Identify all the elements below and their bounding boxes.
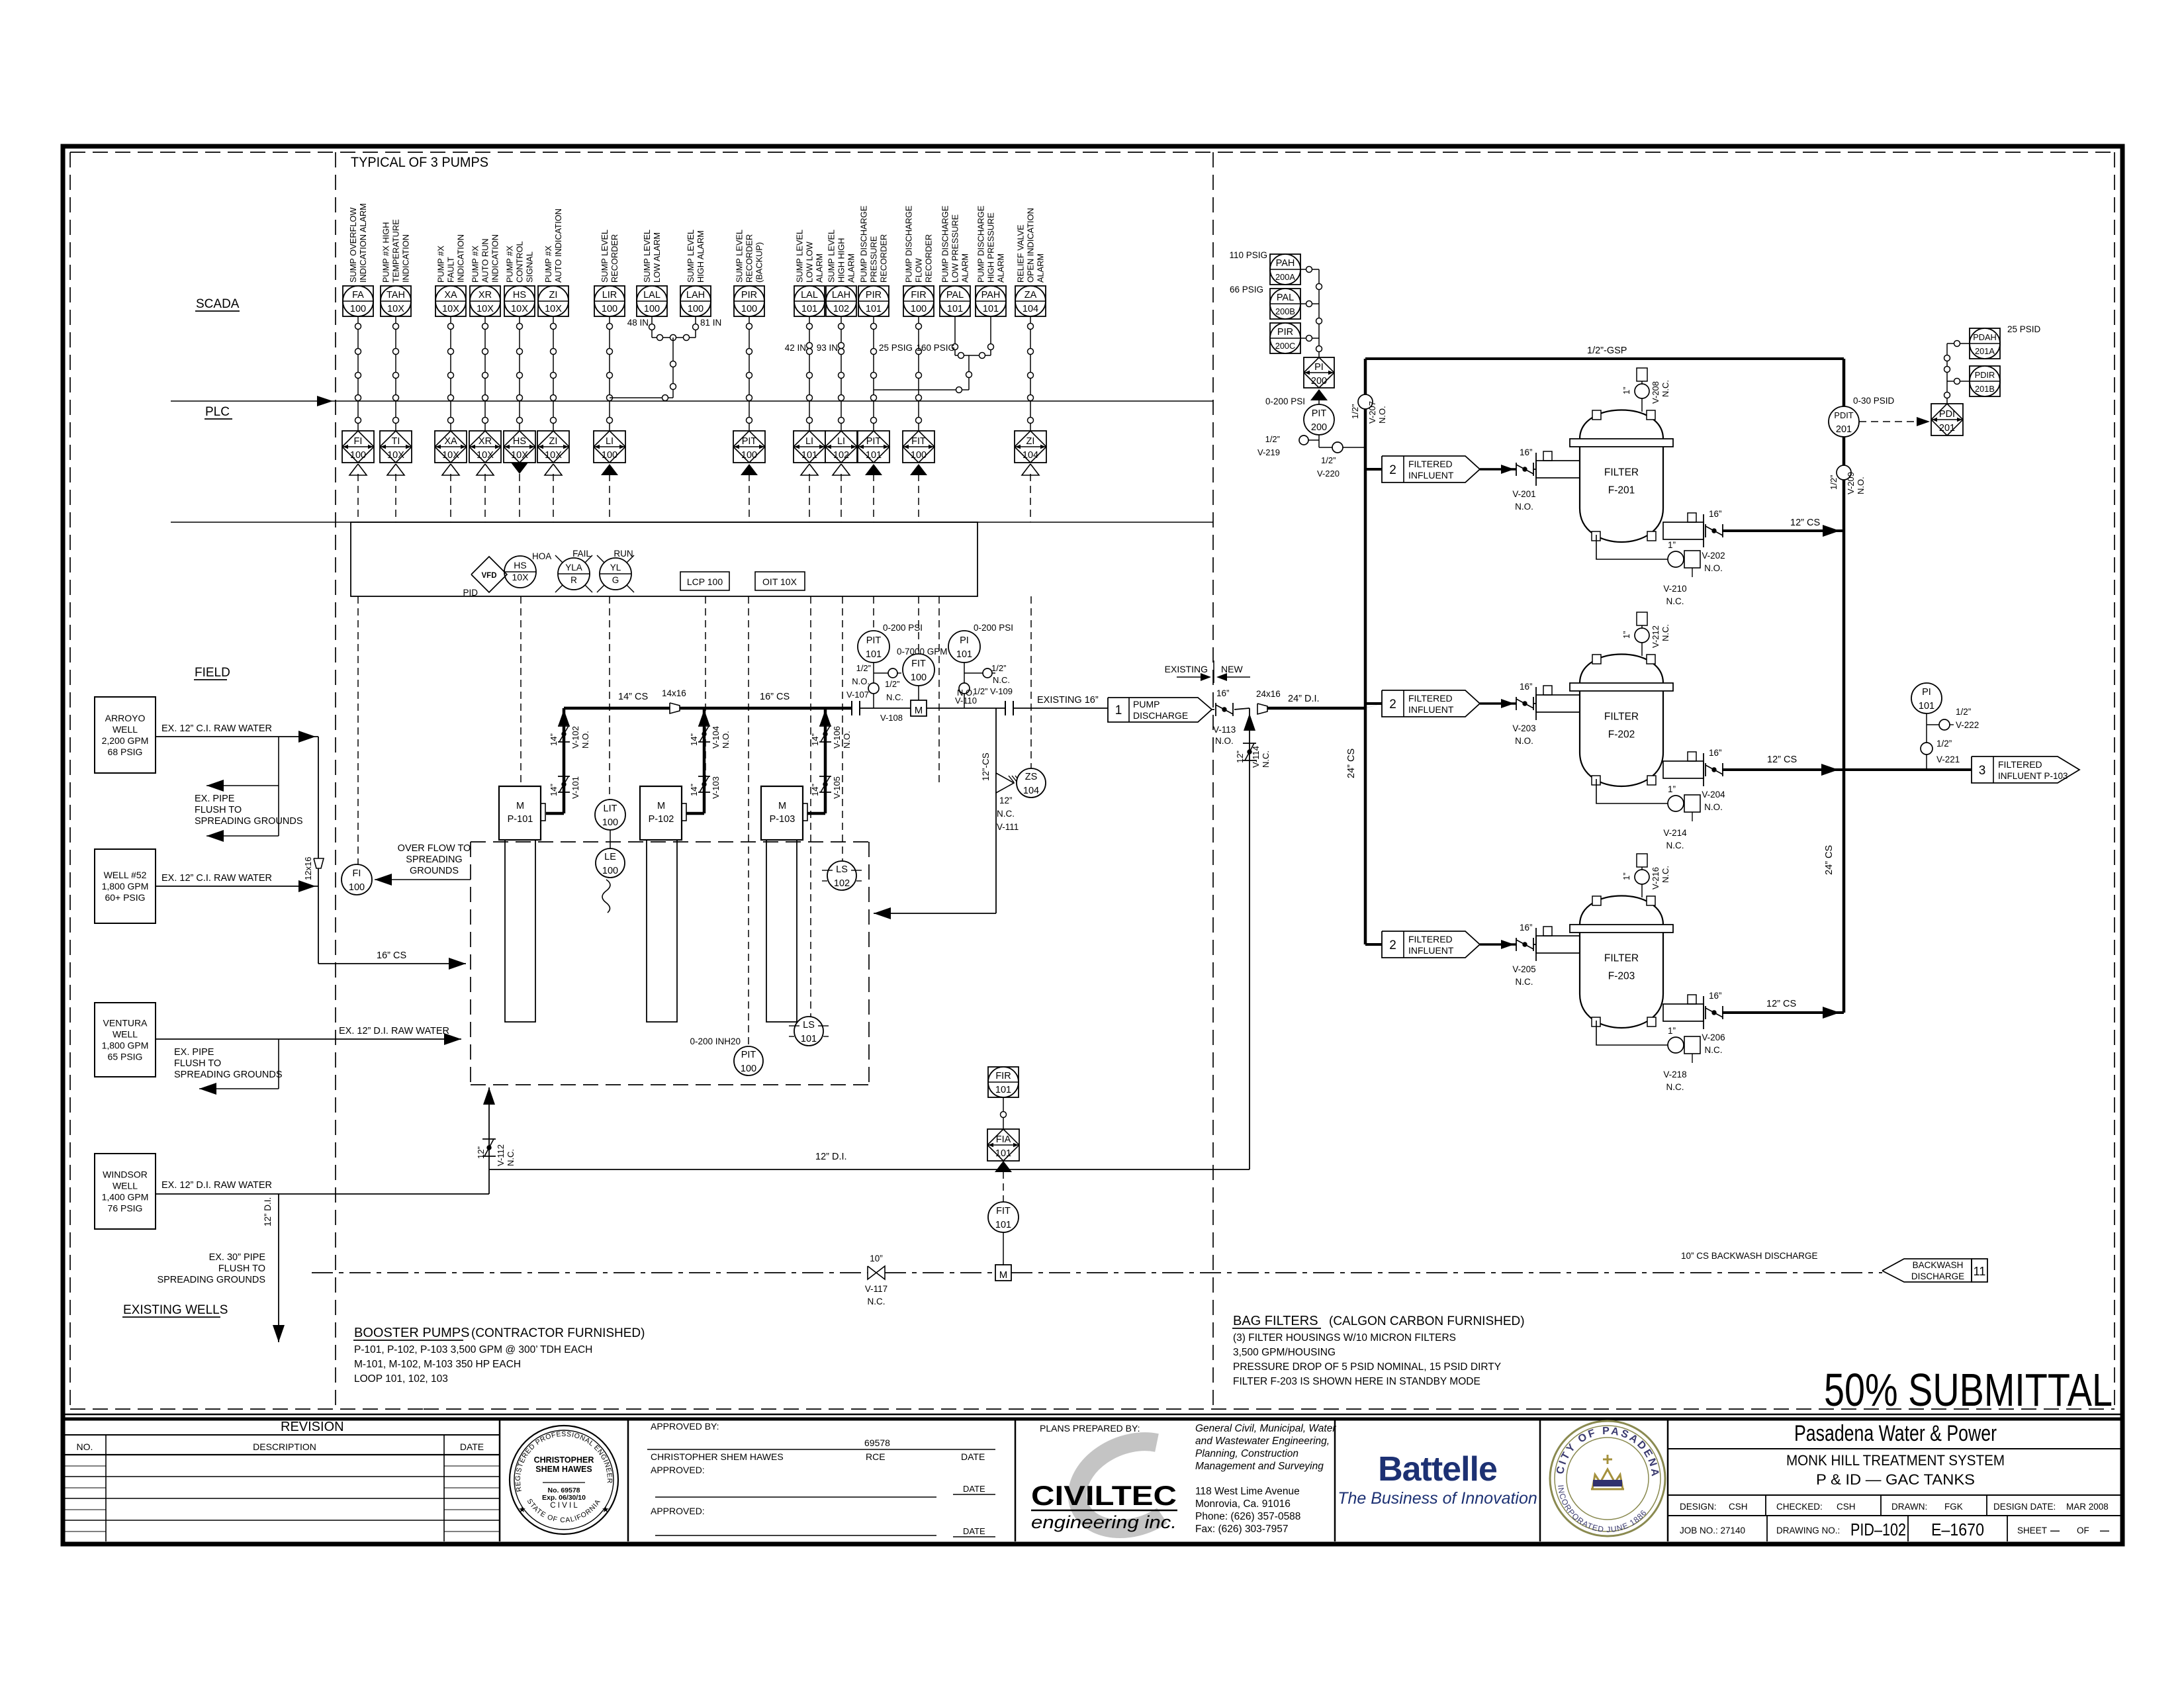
- svg-text:FIA: FIA: [996, 1134, 1011, 1145]
- svg-text:PUMP #X: PUMP #X: [505, 246, 515, 283]
- svg-text:LAH: LAH: [686, 290, 705, 300]
- svg-text:APPROVED BY:: APPROVED BY:: [651, 1421, 719, 1432]
- svg-text:110 PSIG: 110 PSIG: [1229, 250, 1267, 260]
- svg-text:OIT 10X: OIT 10X: [762, 576, 797, 587]
- svg-text:INFLUENT P-103: INFLUENT P-103: [1998, 771, 2068, 781]
- svg-text:101: 101: [866, 304, 882, 314]
- svg-text:25 PSID: 25 PSID: [2007, 324, 2041, 334]
- svg-text:0-200 PSI: 0-200 PSI: [883, 623, 923, 633]
- svg-text:V-105: V-105: [832, 776, 842, 799]
- svg-text:14”: 14”: [810, 733, 820, 746]
- svg-text:10X: 10X: [442, 450, 459, 461]
- svg-text:N.C.: N.C.: [506, 1149, 516, 1166]
- svg-text:M-101, M-102, M-103 350 HP: M-101, M-102, M-103 350 HP EACH: [354, 1359, 521, 1370]
- svg-text:★: ★: [518, 1504, 526, 1514]
- svg-text:PUMP #X: PUMP #X: [436, 246, 446, 283]
- svg-text:V-104: V-104: [711, 726, 721, 749]
- svg-text:WINDSOR: WINDSOR: [103, 1169, 148, 1180]
- svg-text:HS: HS: [513, 290, 526, 300]
- svg-text:CHRISTOPHER SHEM HAWES: CHRISTOPHER SHEM HAWES: [651, 1451, 784, 1462]
- svg-text:N.C.: N.C.: [1666, 841, 1684, 850]
- svg-text:100: 100: [741, 450, 757, 461]
- svg-text:2,200 GPM: 2,200 GPM: [102, 735, 149, 746]
- svg-text:N.C.: N.C.: [1661, 380, 1670, 397]
- svg-text:V-214: V-214: [1663, 828, 1687, 838]
- svg-text:CONTROL: CONTROL: [515, 241, 525, 283]
- svg-text:14x16: 14x16: [662, 688, 686, 698]
- svg-text:and Wastewater Engineering,: and Wastewater Engineering,: [1195, 1436, 1330, 1447]
- svg-text:201A: 201A: [1975, 346, 1995, 356]
- svg-text:N.O.: N.O.: [1856, 477, 1866, 494]
- svg-text:M: M: [657, 801, 665, 811]
- svg-text:100: 100: [688, 304, 704, 314]
- svg-text:HIGH PRESSURE: HIGH PRESSURE: [986, 212, 996, 283]
- svg-text:INDICATION: INDICATION: [401, 234, 411, 283]
- svg-text:DATE: DATE: [963, 1484, 985, 1494]
- svg-text:100: 100: [644, 304, 660, 314]
- svg-text:SPREADING GROUNDS: SPREADING GROUNDS: [195, 816, 303, 827]
- svg-text:V-208: V-208: [1651, 381, 1661, 404]
- svg-text:1: 1: [1115, 704, 1122, 717]
- svg-text:12x16: 12x16: [303, 857, 313, 880]
- svg-text:TEMPERATURE: TEMPERATURE: [391, 219, 401, 283]
- svg-text:102: 102: [834, 878, 850, 889]
- svg-text:OVER FLOW TO: OVER FLOW TO: [398, 843, 471, 854]
- svg-text:HS: HS: [514, 560, 526, 571]
- svg-text:P-102: P-102: [649, 814, 674, 825]
- svg-text:N.C.: N.C.: [1666, 596, 1684, 606]
- svg-text:FILTERED: FILTERED: [1408, 693, 1453, 704]
- svg-text:V-114: V-114: [1251, 746, 1261, 768]
- svg-text:TAH: TAH: [387, 290, 405, 300]
- svg-text:SIGNAL: SIGNAL: [525, 251, 535, 283]
- svg-text:M: M: [778, 801, 786, 811]
- svg-text:FAULT: FAULT: [446, 257, 456, 283]
- svg-text:2: 2: [1389, 698, 1396, 711]
- svg-text:101: 101: [995, 1220, 1011, 1230]
- svg-text:RECORDER: RECORDER: [745, 234, 754, 283]
- svg-text:—: —: [2100, 1525, 2109, 1535]
- svg-text:FILTER: FILTER: [1604, 711, 1639, 723]
- svg-text:V-219: V-219: [1257, 447, 1280, 457]
- svg-text:N.O.: N.O.: [1704, 563, 1723, 573]
- svg-text:EX. 12” C.I. RAW WATER: EX. 12” C.I. RAW WATER: [161, 873, 272, 884]
- svg-text:SUMP LEVEL: SUMP LEVEL: [686, 230, 696, 283]
- svg-text:12” CS: 12” CS: [1790, 518, 1820, 528]
- svg-text:N.O.: N.O.: [721, 731, 731, 749]
- svg-text:N.O.: N.O.: [1377, 406, 1387, 424]
- svg-text:1”: 1”: [1621, 631, 1631, 639]
- svg-text:1/2”: 1/2”: [1265, 434, 1280, 444]
- svg-text:3,500 GPM/HOUSING: 3,500 GPM/HOUSING: [1233, 1347, 1336, 1358]
- svg-text:★: ★: [602, 1504, 610, 1514]
- svg-text:CSH: CSH: [1729, 1502, 1748, 1512]
- svg-text:1/2”: 1/2”: [1350, 404, 1360, 419]
- svg-text:160 PSIG: 160 PSIG: [916, 343, 955, 353]
- svg-text:NEW: NEW: [1221, 664, 1243, 674]
- svg-text:V-220: V-220: [1317, 469, 1340, 479]
- svg-text:F-203: F-203: [1608, 971, 1635, 982]
- svg-text:0-200 INH20: 0-200 INH20: [690, 1036, 741, 1046]
- svg-text:P & ID — GAC TANKS: P & ID — GAC TANKS: [1816, 1471, 1975, 1488]
- svg-text:AUTO INDICATION: AUTO INDICATION: [553, 208, 563, 283]
- svg-text:10X: 10X: [545, 304, 562, 314]
- svg-text:FILTER: FILTER: [1604, 953, 1639, 964]
- svg-text:10X: 10X: [387, 450, 404, 461]
- svg-text:V-212: V-212: [1651, 625, 1661, 648]
- svg-text:16”: 16”: [1520, 682, 1533, 692]
- svg-text:C I V I L: C I V I L: [550, 1502, 578, 1510]
- svg-text:Monrovia, Ca. 91016: Monrovia, Ca. 91016: [1195, 1498, 1291, 1510]
- svg-text:PID–102: PID–102: [1850, 1520, 1906, 1539]
- svg-text:MAR 2008: MAR 2008: [2066, 1502, 2109, 1512]
- svg-text:PDAH: PDAH: [1973, 332, 1997, 342]
- svg-text:FLUSH TO: FLUSH TO: [195, 805, 242, 815]
- svg-text:FIELD: FIELD: [195, 666, 230, 680]
- svg-text:HIGH HIGH: HIGH HIGH: [837, 238, 846, 283]
- svg-text:1/2”: 1/2”: [885, 679, 899, 689]
- svg-text:PIT: PIT: [741, 1050, 756, 1060]
- svg-text:LIT: LIT: [604, 803, 617, 814]
- svg-text:ZS: ZS: [1025, 772, 1038, 782]
- svg-text:PID: PID: [463, 588, 478, 598]
- svg-text:PUMP DISCHARGE: PUMP DISCHARGE: [976, 206, 986, 283]
- svg-text:EX. 12” C.I. RAW WATER: EX. 12” C.I. RAW WATER: [161, 723, 272, 734]
- svg-text:PUMP DISCHARGE: PUMP DISCHARGE: [904, 206, 914, 283]
- svg-text:100: 100: [741, 1064, 756, 1074]
- svg-text:Phone: (626) 357-0588: Phone: (626) 357-0588: [1195, 1511, 1300, 1522]
- svg-text:1”: 1”: [1668, 1026, 1676, 1036]
- svg-text:WELL: WELL: [113, 1029, 138, 1040]
- svg-text:1,400 GPM: 1,400 GPM: [102, 1192, 149, 1203]
- svg-text:200C: 200C: [1275, 341, 1296, 351]
- svg-text:XA: XA: [444, 290, 457, 300]
- svg-text:76 PSIG: 76 PSIG: [108, 1203, 143, 1214]
- svg-text:201: 201: [1836, 424, 1852, 435]
- svg-text:DRAWING NO.:: DRAWING NO.:: [1776, 1526, 1840, 1535]
- svg-text:Management and Surveying: Management and Surveying: [1195, 1461, 1324, 1472]
- svg-text:SUMP OVERFLOW: SUMP OVERFLOW: [348, 207, 358, 283]
- svg-text:V-221: V-221: [1936, 754, 1960, 764]
- svg-text:10X: 10X: [477, 304, 494, 314]
- svg-text:V-201: V-201: [1512, 489, 1535, 499]
- svg-text:16” CS: 16” CS: [760, 692, 790, 702]
- svg-text:FAIL: FAIL: [572, 549, 591, 559]
- svg-text:10X: 10X: [477, 450, 494, 461]
- svg-text:ZI: ZI: [549, 290, 558, 300]
- svg-text:16”: 16”: [1520, 923, 1533, 933]
- svg-text:XR: XR: [478, 290, 492, 300]
- svg-text:68 PSIG: 68 PSIG: [108, 747, 143, 757]
- svg-text:0-200 PSI: 0-200 PSI: [1265, 396, 1305, 406]
- svg-text:1/2”: 1/2”: [1321, 455, 1336, 465]
- svg-text:LE: LE: [604, 852, 616, 862]
- svg-text:TYPICAL OF 3 PUMPS: TYPICAL OF 3 PUMPS: [351, 155, 488, 170]
- svg-text:PIR: PIR: [866, 290, 882, 300]
- svg-text:10X: 10X: [511, 304, 528, 314]
- svg-text:N.C.: N.C.: [1661, 624, 1670, 641]
- svg-text:FA: FA: [352, 290, 364, 300]
- svg-text:PUMP DISCHARGE: PUMP DISCHARGE: [859, 206, 869, 283]
- svg-text:100: 100: [350, 304, 366, 314]
- svg-text:1/2”: 1/2”: [856, 663, 871, 673]
- svg-text:1,800 GPM: 1,800 GPM: [102, 881, 149, 891]
- svg-text:JOB NO.: 27140: JOB NO.: 27140: [1680, 1526, 1745, 1535]
- svg-text:FILTER F-203 IS SHOWN HERE: FILTER F-203 IS SHOWN HERE IN STANDBY MO…: [1233, 1376, 1480, 1387]
- svg-text:FIT: FIT: [911, 436, 926, 447]
- svg-text:LIR: LIR: [602, 290, 617, 300]
- svg-text:Fax: (626) 303-7957: Fax: (626) 303-7957: [1195, 1524, 1288, 1535]
- svg-text:Exp. 06/30/10: Exp. 06/30/10: [542, 1494, 586, 1502]
- svg-text:14”: 14”: [549, 733, 559, 746]
- svg-text:N.O.: N.O.: [1215, 736, 1234, 746]
- svg-text:N.C.: N.C.: [868, 1297, 886, 1306]
- svg-text:69578: 69578: [864, 1438, 890, 1448]
- svg-text:65 PSIG: 65 PSIG: [108, 1052, 143, 1062]
- svg-text:100: 100: [349, 882, 365, 893]
- svg-text:60+ PSIG: 60+ PSIG: [105, 892, 145, 903]
- svg-text:81 IN: 81 IN: [700, 318, 721, 328]
- svg-text:EXISTING: EXISTING: [1165, 664, 1208, 674]
- svg-text:Planning, Construction: Planning, Construction: [1195, 1448, 1298, 1459]
- svg-text:101: 101: [866, 450, 882, 461]
- svg-text:DESIGN:: DESIGN:: [1680, 1502, 1717, 1512]
- svg-text:12” D.I.: 12” D.I.: [263, 1197, 273, 1226]
- svg-text:XR: XR: [478, 436, 492, 447]
- svg-text:FLUSH TO: FLUSH TO: [174, 1058, 221, 1069]
- svg-text:PIT: PIT: [866, 635, 882, 646]
- svg-text:F-202: F-202: [1608, 729, 1635, 741]
- svg-text:N.O.: N.O.: [1704, 802, 1723, 812]
- svg-text:V-207: V-207: [1367, 401, 1377, 424]
- svg-text:DRAWN:: DRAWN:: [1891, 1502, 1927, 1512]
- svg-text:200: 200: [1311, 422, 1327, 433]
- svg-text:LOOP 101, 102, 103: LOOP 101, 102, 103: [354, 1373, 448, 1385]
- svg-text:16”: 16”: [1709, 509, 1722, 519]
- svg-text:V-111: V-111: [997, 822, 1019, 832]
- svg-text:V-202: V-202: [1702, 551, 1725, 561]
- svg-text:CSH: CSH: [1837, 1502, 1856, 1512]
- svg-text:10X: 10X: [442, 304, 459, 314]
- svg-text:PIT: PIT: [1312, 408, 1327, 419]
- svg-text:WELL: WELL: [113, 1181, 138, 1191]
- svg-text:(CONTRACTOR FURNISHED): (CONTRACTOR FURNISHED): [471, 1326, 645, 1340]
- svg-text:LCP 100: LCP 100: [687, 576, 723, 587]
- svg-text:PAL: PAL: [1277, 293, 1294, 303]
- svg-text:REVISION: REVISION: [281, 1420, 344, 1434]
- svg-text:14”: 14”: [689, 733, 699, 746]
- svg-text:FILTERED: FILTERED: [1408, 934, 1453, 944]
- svg-text:100: 100: [911, 672, 927, 683]
- svg-text:PIT: PIT: [866, 436, 882, 447]
- svg-text:101: 101: [983, 304, 999, 314]
- svg-text:24” CS: 24” CS: [1346, 749, 1357, 778]
- svg-text:INFLUENT: INFLUENT: [1408, 470, 1454, 480]
- svg-text:1/2” V-109: 1/2” V-109: [973, 686, 1013, 696]
- svg-text:16” CS: 16” CS: [377, 950, 406, 961]
- svg-text:100: 100: [350, 450, 366, 461]
- svg-text:N.C.: N.C.: [1661, 866, 1670, 883]
- svg-text:V-102: V-102: [570, 726, 580, 749]
- svg-text:N.O.: N.O.: [580, 731, 590, 749]
- svg-text:SUMP LEVEL: SUMP LEVEL: [642, 230, 652, 283]
- svg-text:FIT: FIT: [996, 1206, 1011, 1216]
- svg-text:PAL: PAL: [946, 290, 964, 300]
- svg-text:12”-CS: 12”-CS: [981, 753, 991, 781]
- svg-text:PUMP DISCHARGE: PUMP DISCHARGE: [940, 206, 950, 283]
- svg-text:24” D.I.: 24” D.I.: [1288, 694, 1320, 704]
- svg-text:101: 101: [956, 649, 972, 660]
- svg-text:10X: 10X: [387, 304, 404, 314]
- svg-text:SPREADING GROUNDS: SPREADING GROUNDS: [157, 1275, 265, 1285]
- svg-text:V-103: V-103: [711, 776, 721, 799]
- svg-text:1”: 1”: [1621, 387, 1631, 394]
- svg-text:93 IN: 93 IN: [817, 343, 838, 353]
- svg-text:V-206: V-206: [1702, 1032, 1725, 1042]
- svg-text:14”: 14”: [549, 784, 559, 796]
- svg-text:PI: PI: [1314, 362, 1324, 373]
- svg-text:EX. 12” D.I. RAW WATER: EX. 12” D.I. RAW WATER: [161, 1180, 272, 1191]
- svg-text:EX. PIPE: EX. PIPE: [195, 794, 235, 804]
- svg-text:DISCHARGE: DISCHARGE: [1133, 710, 1188, 721]
- svg-text:—: —: [2050, 1525, 2060, 1535]
- svg-text:Pasadena Water & Power: Pasadena Water & Power: [1794, 1421, 1997, 1446]
- svg-text:12” CS: 12” CS: [1767, 754, 1797, 765]
- svg-text:PRESSURE: PRESSURE: [869, 236, 879, 283]
- svg-text:ALARM: ALARM: [996, 253, 1006, 283]
- svg-text:V-108: V-108: [880, 713, 903, 723]
- svg-text:10X: 10X: [511, 450, 528, 461]
- svg-text:V-222: V-222: [1956, 720, 1979, 730]
- svg-text:TI: TI: [392, 436, 400, 447]
- svg-text:RECORDER: RECORDER: [924, 234, 934, 283]
- svg-text:1/2”: 1/2”: [1936, 739, 1952, 749]
- svg-text:200B: 200B: [1275, 306, 1295, 316]
- svg-text:FIR: FIR: [911, 290, 926, 300]
- svg-text:INDICATION: INDICATION: [456, 234, 466, 283]
- svg-text:1”: 1”: [1668, 540, 1676, 550]
- svg-text:MONK HILL TREATMENT SYSTEM: MONK HILL TREATMENT SYSTEM: [1786, 1452, 2005, 1469]
- svg-text:P-101: P-101: [508, 814, 533, 825]
- svg-text:YLA: YLA: [565, 563, 582, 572]
- svg-text:LAL: LAL: [643, 290, 660, 300]
- svg-text:PI: PI: [960, 635, 969, 646]
- svg-text:LAL: LAL: [801, 290, 818, 300]
- svg-text:DESIGN DATE:: DESIGN DATE:: [1993, 1502, 2056, 1512]
- svg-text:201: 201: [1939, 423, 1955, 434]
- svg-text:engineering inc.: engineering inc.: [1031, 1512, 1177, 1532]
- svg-text:AUTO RUN: AUTO RUN: [480, 238, 490, 283]
- svg-text:INFLUENT: INFLUENT: [1408, 704, 1454, 715]
- svg-text:N.O.: N.O.: [1515, 502, 1533, 512]
- svg-text:CIVILTEC: CIVILTEC: [1031, 1480, 1177, 1511]
- svg-text:M: M: [999, 1269, 1008, 1281]
- svg-text:XA: XA: [444, 436, 457, 447]
- svg-text:SHEM HAWES: SHEM HAWES: [535, 1465, 592, 1474]
- svg-text:ALARM: ALARM: [1036, 253, 1046, 283]
- svg-text:PDI: PDI: [1939, 409, 1955, 420]
- svg-text:104: 104: [1023, 304, 1038, 314]
- svg-text:LOW ALARM: LOW ALARM: [652, 232, 662, 283]
- svg-text:PLANS PREPARED BY:: PLANS PREPARED BY:: [1040, 1423, 1140, 1434]
- svg-text:50% SUBMITTAL: 50% SUBMITTAL: [1824, 1364, 2113, 1416]
- svg-text:N.C.: N.C.: [993, 675, 1010, 685]
- svg-text:25 PSIG: 25 PSIG: [879, 343, 913, 353]
- svg-text:RELIEF VALVE: RELIEF VALVE: [1016, 224, 1026, 283]
- svg-text:10”: 10”: [870, 1254, 883, 1263]
- svg-text:PAH: PAH: [981, 290, 1001, 300]
- svg-text:2: 2: [1389, 938, 1396, 952]
- svg-text:V-110: V-110: [955, 696, 977, 706]
- svg-text:100: 100: [602, 304, 617, 314]
- svg-text:42 IN: 42 IN: [785, 343, 806, 353]
- svg-text:RECORDER: RECORDER: [879, 234, 889, 283]
- svg-text:BOOSTER PUMPS: BOOSTER PUMPS: [354, 1326, 469, 1340]
- svg-text:PIR: PIR: [741, 290, 757, 300]
- svg-text:V-209: V-209: [1846, 472, 1856, 494]
- svg-text:FGK: FGK: [1944, 1502, 1963, 1512]
- svg-text:101: 101: [995, 1148, 1011, 1159]
- svg-text:EXISTING WELLS: EXISTING WELLS: [123, 1303, 228, 1317]
- svg-text:V-203: V-203: [1512, 723, 1535, 733]
- svg-text:1,800 GPM: 1,800 GPM: [102, 1040, 149, 1051]
- svg-text:Battelle: Battelle: [1378, 1450, 1497, 1488]
- svg-text:10X: 10X: [545, 450, 562, 461]
- svg-text:RUN: RUN: [614, 549, 633, 559]
- svg-text:CHECKED:: CHECKED:: [1776, 1502, 1823, 1512]
- svg-text:SUMP LEVEL: SUMP LEVEL: [600, 230, 610, 283]
- svg-text:201B: 201B: [1975, 384, 1995, 394]
- svg-text:R: R: [570, 575, 577, 585]
- svg-text:G: G: [612, 575, 619, 585]
- svg-text:SUMP LEVEL: SUMP LEVEL: [827, 230, 837, 283]
- svg-text:N.C.: N.C.: [1516, 977, 1533, 987]
- svg-text:PAH: PAH: [1276, 258, 1295, 269]
- svg-text:PIT: PIT: [742, 436, 757, 447]
- svg-text:1”: 1”: [1621, 872, 1631, 880]
- svg-text:V-205: V-205: [1512, 964, 1535, 974]
- svg-text:V-106: V-106: [832, 726, 842, 749]
- svg-text:PI: PI: [1922, 687, 1931, 698]
- svg-text:101: 101: [801, 450, 817, 461]
- svg-text:N.O.: N.O.: [1515, 736, 1533, 746]
- svg-text:BAG FILTERS: BAG FILTERS: [1233, 1314, 1318, 1328]
- svg-text:General Civil, Municipal, Wate: General Civil, Municipal, Water: [1195, 1423, 1336, 1434]
- svg-text:SCADA: SCADA: [196, 297, 240, 311]
- svg-text:CHRISTOPHER: CHRISTOPHER: [534, 1455, 594, 1465]
- svg-text:DATE: DATE: [460, 1441, 484, 1452]
- svg-text:14” CS: 14” CS: [618, 692, 648, 702]
- svg-text:PUMP #X: PUMP #X: [543, 246, 553, 283]
- svg-text:101: 101: [947, 304, 963, 314]
- svg-text:DISCHARGE: DISCHARGE: [1911, 1271, 1964, 1281]
- svg-text:LAH: LAH: [832, 290, 850, 300]
- svg-text:48 IN: 48 IN: [627, 318, 649, 328]
- svg-text:LI: LI: [606, 436, 614, 447]
- svg-text:14”: 14”: [810, 784, 820, 796]
- svg-text:(CALGON CARBON FURNISHED): (CALGON CARBON FURNISHED): [1329, 1314, 1525, 1328]
- svg-text:V-210: V-210: [1663, 584, 1686, 594]
- svg-text:P-103: P-103: [770, 814, 796, 825]
- svg-text:YL: YL: [610, 563, 621, 572]
- svg-text:3: 3: [1979, 764, 1986, 778]
- svg-text:FILTERED: FILTERED: [1998, 759, 2042, 770]
- svg-text:SPREADING GROUNDS: SPREADING GROUNDS: [174, 1070, 283, 1080]
- svg-text:12”: 12”: [476, 1146, 486, 1159]
- svg-text:FI: FI: [354, 436, 363, 447]
- svg-text:ZI: ZI: [549, 436, 558, 447]
- svg-text:100: 100: [911, 304, 927, 314]
